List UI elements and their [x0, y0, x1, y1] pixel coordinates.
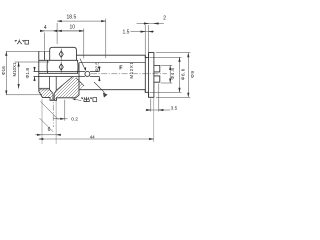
svg-text:F: F	[119, 66, 123, 72]
svg-text:Φ6.6: Φ6.6	[181, 68, 186, 80]
svg-text:Φ9: Φ9	[190, 70, 196, 78]
svg-text:Φ16: Φ16	[1, 66, 6, 75]
svg-text:18.5: 18.5	[67, 15, 77, 21]
svg-text:Φ2.5: Φ2.5	[94, 62, 99, 72]
svg-text:Φ1.8: Φ1.8	[25, 68, 31, 79]
svg-text:10: 10	[70, 25, 76, 31]
svg-text:6: 6	[48, 127, 51, 133]
svg-text:0.2: 0.2	[71, 116, 78, 122]
svg-text:M10X1: M10X1	[12, 62, 17, 76]
svg-text:1.5: 1.5	[123, 29, 130, 35]
svg-text:M12X1: M12X1	[129, 62, 134, 79]
svg-text:2: 2	[163, 16, 166, 22]
svg-text:4: 4	[44, 25, 47, 31]
svg-text:44: 44	[90, 135, 96, 140]
svg-text:3.5: 3.5	[171, 105, 178, 110]
svg-text:Φ4.8: Φ4.8	[170, 68, 175, 80]
